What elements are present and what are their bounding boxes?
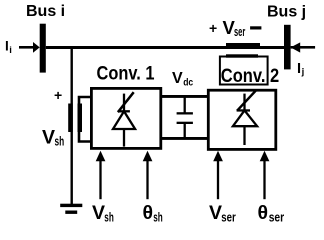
svg-text:V: V — [172, 70, 183, 87]
svg-text:ser: ser — [234, 25, 245, 39]
svg-text:ser: ser — [269, 210, 285, 225]
svg-text:j: j — [301, 67, 305, 78]
svg-text:θ: θ — [143, 202, 154, 224]
svg-text:I: I — [5, 39, 9, 54]
svg-text:sh: sh — [104, 210, 114, 225]
svg-text:i: i — [9, 45, 12, 56]
svg-text:V: V — [92, 202, 105, 224]
svg-text:+: + — [209, 20, 217, 36]
svg-text:Bus j: Bus j — [267, 4, 306, 21]
svg-text:I: I — [297, 61, 301, 77]
svg-text:ser: ser — [221, 210, 236, 225]
svg-text:θ: θ — [258, 202, 269, 224]
svg-text:sh: sh — [153, 210, 163, 225]
svg-text:sh: sh — [55, 134, 65, 149]
svg-text:Conv. 1: Conv. 1 — [97, 63, 155, 84]
svg-text:Conv. 2: Conv. 2 — [221, 66, 279, 87]
svg-text:Bus i: Bus i — [26, 3, 65, 20]
svg-text:+: + — [54, 87, 62, 103]
svg-text:V: V — [42, 126, 55, 148]
svg-text:V: V — [209, 202, 222, 224]
svg-text:dc: dc — [183, 78, 193, 89]
